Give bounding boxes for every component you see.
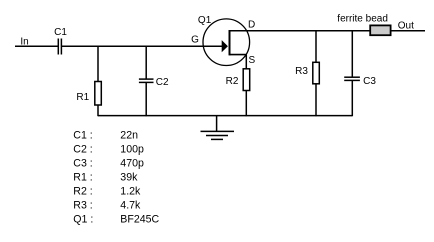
wire ground bus — [98, 115, 352, 117]
wire ferrite bead to Out — [391, 30, 426, 32]
svg-text:100p: 100p — [120, 144, 144, 156]
resistor R1 — [76, 46, 101, 116]
svg-text:BF245C: BF245C — [120, 214, 159, 226]
capacitor C3 — [344, 31, 376, 116]
svg-text:Out: Out — [398, 21, 414, 32]
svg-text:R3 :: R3 : — [73, 200, 92, 212]
svg-text:C1: C1 — [54, 27, 67, 38]
svg-text:G: G — [191, 35, 199, 46]
value table — [73, 130, 159, 226]
svg-text:470p: 470p — [120, 158, 144, 170]
resistor R3 — [295, 31, 319, 116]
capacitor C1 — [54, 27, 67, 55]
svg-text:R1: R1 — [76, 92, 89, 103]
svg-text:ferrite bead: ferrite bead — [337, 13, 388, 24]
svg-text:39k: 39k — [120, 172, 138, 184]
svg-text:R2: R2 — [226, 76, 239, 87]
ground — [201, 116, 235, 140]
svg-text:C2: C2 — [156, 77, 169, 88]
svg-text:22n: 22n — [120, 130, 138, 142]
wire input to C1 — [15, 45, 58, 47]
svg-text:4.7k: 4.7k — [120, 200, 141, 212]
svg-text:C3: C3 — [363, 76, 376, 87]
svg-text:S: S — [248, 55, 255, 66]
svg-text:Q1 :: Q1 : — [73, 214, 93, 226]
wire drain to ferrite bead — [230, 30, 371, 32]
resistor R2 — [226, 55, 250, 117]
svg-text:1.2k: 1.2k — [120, 186, 141, 198]
capacitor C2 — [139, 46, 169, 116]
ferrite bead — [337, 13, 390, 35]
svg-text:D: D — [248, 20, 255, 31]
svg-text:R2 :: R2 : — [73, 186, 92, 198]
transistor Q1 (BF245C JFET) — [191, 15, 255, 66]
svg-text:C3 :: C3 : — [73, 158, 92, 170]
svg-text:Q1: Q1 — [198, 15, 212, 26]
svg-text:C1 :: C1 : — [73, 130, 92, 142]
svg-text:R3: R3 — [295, 66, 308, 77]
svg-text:R1 :: R1 : — [73, 172, 92, 184]
svg-text:C2 :: C2 : — [73, 144, 92, 156]
wire C1 to gate of Q1 — [62, 45, 224, 47]
